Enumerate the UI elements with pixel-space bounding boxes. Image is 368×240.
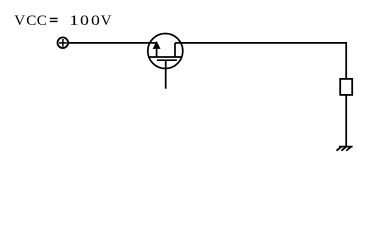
terminal VCC (circle with plus) bbox=[58, 37, 69, 48]
ground hatch 2 bbox=[341, 147, 346, 151]
ground hatch 1 bbox=[337, 147, 342, 151]
wire terminal to Q1 source bbox=[68, 42, 156, 44]
Q1 source arrow line bbox=[156, 45, 158, 57]
Q1 gate lead bbox=[165, 60, 167, 88]
Q1 body circle bbox=[148, 34, 183, 69]
transistor Q1 bbox=[148, 34, 183, 89]
resistor R1 bbox=[340, 79, 352, 95]
ground bar bbox=[339, 146, 353, 148]
ground bbox=[337, 147, 353, 151]
Q1 channel bar bbox=[149, 56, 182, 58]
Q1 source arrowhead bbox=[153, 41, 161, 49]
equals sign of net label bbox=[50, 18, 58, 21]
ground hatch 3 bbox=[346, 147, 351, 151]
Q1 drain stub bbox=[174, 43, 176, 57]
net label VCC = 100V bbox=[14, 14, 25, 29]
wire Q1 drain to corner to R1 bbox=[175, 43, 346, 79]
Q1 gate bar bbox=[157, 59, 177, 61]
wire R1 to ground bbox=[345, 95, 347, 147]
